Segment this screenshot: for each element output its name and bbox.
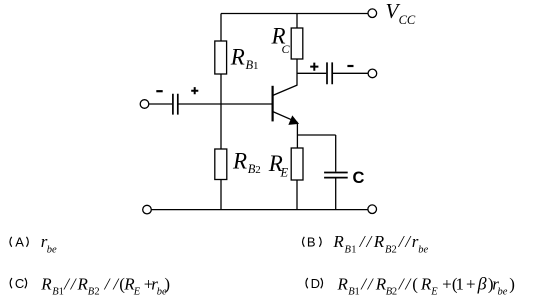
- wire bypass cap bottom: [335, 179, 337, 210]
- label Vcc: [386, 0, 416, 27]
- transistor Q1 base bar: [272, 86, 274, 122]
- svg-text:1: 1: [253, 60, 259, 72]
- wire RC to collector: [296, 59, 298, 85]
- transistor Q1 collector lead: [273, 85, 298, 96]
- polarity plus C2: [310, 63, 318, 71]
- wire base node to RB2: [220, 104, 222, 149]
- label RB2: [232, 148, 261, 176]
- wire C2 to output terminal: [332, 72, 368, 74]
- wire RC top: [296, 14, 298, 29]
- svg-text:E: E: [280, 166, 289, 180]
- polarity plus C1: [191, 87, 198, 94]
- terminal input: [140, 100, 149, 109]
- capacitor C bypass: [324, 173, 348, 178]
- terminal output: [368, 69, 377, 78]
- wire RE to ground rail: [296, 180, 298, 210]
- answer A: [10, 232, 57, 255]
- svg-text:A: A: [15, 234, 24, 249]
- wire RB1 column upper: [220, 14, 222, 42]
- svg-text:be: be: [47, 244, 57, 255]
- transistor Q1 emitter lead: [273, 112, 298, 123]
- svg-text:C: C: [282, 42, 291, 56]
- resistor RE: [291, 148, 303, 180]
- wire output tap: [297, 72, 326, 74]
- label RB1: [230, 44, 259, 72]
- terminal Vcc: [368, 9, 377, 18]
- resistor RC: [291, 28, 303, 59]
- resistor RB1: [215, 41, 227, 74]
- svg-text:C: C: [15, 276, 24, 291]
- svg-text:C: C: [353, 169, 365, 187]
- svg-text:CC: CC: [399, 13, 416, 27]
- answer C: [10, 275, 170, 298]
- wire bypass cap top: [335, 135, 337, 172]
- svg-text:R: R: [230, 44, 245, 69]
- wire RB2 to ground rail: [220, 180, 222, 210]
- wire bottom ground rail: [152, 209, 368, 211]
- wire input to capacitor: [149, 103, 172, 105]
- wire top rail Vcc: [221, 13, 368, 15]
- wire emitter column: [296, 122, 298, 148]
- label RE: [268, 151, 289, 180]
- terminal ground left: [143, 205, 152, 214]
- svg-text:R: R: [232, 148, 247, 173]
- resistor RB2: [215, 149, 227, 180]
- answer B: [303, 232, 429, 255]
- terminal ground right: [368, 205, 377, 214]
- polarity minus C2: [347, 65, 353, 67]
- answer D: [306, 274, 515, 298]
- wire RB1 to base node: [220, 74, 222, 104]
- svg-text:B: B: [307, 234, 316, 249]
- label RC: [271, 23, 291, 56]
- svg-text:2: 2: [255, 164, 261, 176]
- wire emitter to bypass cap: [297, 134, 335, 136]
- wire capacitor to base: [178, 103, 272, 105]
- capacitor C2 output coupling: [327, 62, 332, 84]
- svg-text:D: D: [311, 276, 320, 291]
- transistor Q1 emitter arrow: [290, 117, 298, 124]
- polarity minus C1: [156, 90, 162, 92]
- capacitor C1 input coupling: [173, 94, 178, 115]
